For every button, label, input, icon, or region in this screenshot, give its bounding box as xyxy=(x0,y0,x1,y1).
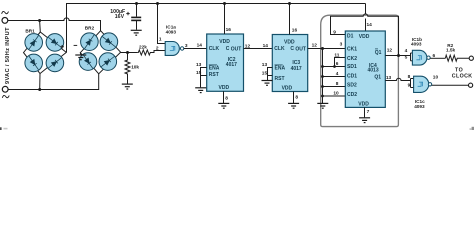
node: rail tee to IC2 pin16 xyxy=(223,2,226,5)
svg-text:7: 7 xyxy=(367,109,370,115)
svg-text:4093: 4093 xyxy=(414,104,425,109)
svg-text:VDD: VDD xyxy=(358,101,369,107)
node: rail tee to IC3 pin16 xyxy=(288,2,291,5)
wire: Q1 to IC1c xyxy=(385,78,410,80)
ground BR2 left node xyxy=(75,53,86,60)
node: tie junction on clock wire xyxy=(321,47,324,50)
svg-text:8: 8 xyxy=(295,95,298,101)
wire: Q1bar to IC1b xyxy=(385,55,410,57)
svg-text:13: 13 xyxy=(262,62,268,68)
svg-text:14: 14 xyxy=(197,43,203,49)
svg-text:C: C xyxy=(226,46,230,52)
svg-text:9VAC / 50Hz INPUT: 9VAC / 50Hz INPUT xyxy=(5,27,11,84)
terminal: clock output top xyxy=(469,56,473,60)
IC3 4017 xyxy=(262,4,308,109)
IC2 4017 xyxy=(195,4,243,109)
terminal: AC input top xyxy=(2,18,8,24)
svg-text:4: 4 xyxy=(336,71,339,77)
svg-text:CK1: CK1 xyxy=(347,47,357,53)
svg-text:D1: D1 xyxy=(347,33,354,39)
svg-text:SD2: SD2 xyxy=(347,82,357,88)
corner artifact bottom-right xyxy=(472,127,474,130)
label: + output BR1 xyxy=(60,45,64,49)
op IC1a NAND 4093 xyxy=(156,4,207,56)
svg-text:16: 16 xyxy=(226,27,232,33)
svg-text:1: 1 xyxy=(159,37,162,43)
svg-text:VDD: VDD xyxy=(282,86,293,92)
node: rail tee to C1 xyxy=(135,2,138,5)
svg-text:4093: 4093 xyxy=(166,29,177,34)
grey frame around IC4 section xyxy=(321,15,399,126)
resistor 22k xyxy=(137,44,165,55)
svg-text:8: 8 xyxy=(408,74,411,80)
svg-text:Q1: Q1 xyxy=(374,75,381,81)
node: junction 10k xyxy=(126,51,129,54)
svg-text:RST: RST xyxy=(275,76,285,82)
node: rail tee to IC1a pin1 xyxy=(156,2,159,5)
svg-text:16: 16 xyxy=(292,28,298,34)
svg-text:BR2: BR2 xyxy=(85,26,95,31)
wire: main signal BR2 to 22k xyxy=(121,52,138,54)
ground tie IC4 inputs xyxy=(317,102,328,104)
wire: tie for SD/CD pins xyxy=(322,49,324,104)
resistor 10k xyxy=(122,53,140,90)
svg-text:22k: 22k xyxy=(139,44,147,49)
svg-text:10: 10 xyxy=(433,75,439,81)
node: T1 wire tee xyxy=(38,19,41,22)
svg-text:SD1: SD1 xyxy=(347,64,357,70)
wire: T1 to bridges xyxy=(8,18,101,31)
bridge rectifier BR1 xyxy=(24,29,67,74)
svg-text:10: 10 xyxy=(333,90,339,96)
wire: top VDD rail xyxy=(67,4,366,53)
svg-text:4: 4 xyxy=(405,48,408,54)
svg-text:CK2: CK2 xyxy=(347,56,357,62)
svg-text:14: 14 xyxy=(367,22,373,28)
wire: T2 to bridges xyxy=(8,74,99,90)
wire pin1 from rail xyxy=(158,4,166,44)
svg-text:12: 12 xyxy=(245,44,251,50)
resistor R2 1.5k xyxy=(445,43,469,61)
wire: IC3 COUT to IC4 CK1 xyxy=(308,48,346,50)
svg-text:CLOCK: CLOCK xyxy=(452,73,472,79)
ground C1 xyxy=(131,29,142,31)
svg-text:1.5k: 1.5k xyxy=(446,48,456,53)
terminal: clock output bottom xyxy=(469,83,473,87)
AC squiggle bottom xyxy=(2,95,9,97)
corner artifact bottom-left xyxy=(0,127,2,130)
svg-text:C: C xyxy=(290,46,294,52)
wire: VDD drop to IC4 pin14 xyxy=(365,4,367,14)
svg-text:OUT: OUT xyxy=(295,47,306,53)
svg-text:CD2: CD2 xyxy=(347,92,357,98)
svg-text:4013: 4013 xyxy=(368,68,379,74)
svg-text:6: 6 xyxy=(336,61,339,67)
svg-text:BR1: BR1 xyxy=(25,29,35,34)
svg-text:8: 8 xyxy=(336,81,339,87)
op IC1c NAND 4093 xyxy=(408,74,469,109)
svg-text:CLK: CLK xyxy=(209,46,220,52)
IC4 4013 xyxy=(345,31,385,107)
svg-text:CLK: CLK xyxy=(274,46,285,52)
ground 10k xyxy=(122,83,133,85)
svg-text:OUT: OUT xyxy=(231,46,242,52)
svg-text:8: 8 xyxy=(225,95,228,101)
pin 8 ground xyxy=(223,91,225,103)
svg-text:12: 12 xyxy=(387,47,393,53)
wire: IC2 COUT to IC3 CLK xyxy=(244,48,273,50)
svg-text:9: 9 xyxy=(408,83,411,89)
svg-text:6: 6 xyxy=(433,53,436,59)
svg-text:13: 13 xyxy=(196,62,202,68)
svg-text:4093: 4093 xyxy=(411,42,422,47)
svg-text:5: 5 xyxy=(405,54,408,60)
label: - output BR2 xyxy=(74,44,78,46)
svg-text:VDD: VDD xyxy=(359,34,370,40)
svg-text:14: 14 xyxy=(263,43,269,49)
pin 7 ground xyxy=(364,107,366,117)
svg-text:15: 15 xyxy=(196,70,202,76)
diodes xyxy=(27,34,63,71)
wire: down to BR1 top xyxy=(39,21,42,33)
terminal: AC input bottom xyxy=(2,86,8,92)
svg-text:3: 3 xyxy=(340,42,343,48)
ground IC2 ENA/RST xyxy=(195,87,206,89)
svg-text:CD1: CD1 xyxy=(347,74,357,80)
svg-text:3: 3 xyxy=(185,43,188,49)
svg-text:15: 15 xyxy=(262,71,268,77)
svg-text:VDD: VDD xyxy=(284,39,295,45)
svg-text:13: 13 xyxy=(386,75,392,81)
wire: CK2 connect down to SD1 stub xyxy=(335,58,346,67)
svg-text:4017: 4017 xyxy=(226,62,237,68)
wire: up to BR1 bottom xyxy=(39,74,41,90)
schmitt glyph xyxy=(170,46,175,50)
svg-text:TO: TO xyxy=(455,67,463,73)
svg-text:4017: 4017 xyxy=(291,66,302,72)
svg-text:ENA: ENA xyxy=(275,66,286,72)
op IC1b NAND 4093 xyxy=(405,37,446,65)
node: T2 wire tee xyxy=(38,88,41,91)
svg-text:12: 12 xyxy=(312,42,318,48)
svg-text:2: 2 xyxy=(156,45,159,51)
wire: D1 feedback loop from Q1bar xyxy=(331,14,399,56)
svg-text:Q1: Q1 xyxy=(375,50,382,56)
capacitor C1 100uF xyxy=(110,4,141,36)
bridge rectifier BR2 xyxy=(79,26,120,74)
svg-text:16V: 16V xyxy=(115,14,125,20)
svg-text:VDD: VDD xyxy=(219,39,230,45)
svg-text:ENA: ENA xyxy=(209,66,220,72)
pins ENA RST tie xyxy=(201,68,207,88)
svg-text:10k: 10k xyxy=(131,65,139,70)
svg-text:RST: RST xyxy=(209,72,219,78)
svg-text:VDD: VDD xyxy=(219,85,230,91)
AC squiggle top xyxy=(2,11,9,13)
pin 16 xyxy=(224,4,226,35)
